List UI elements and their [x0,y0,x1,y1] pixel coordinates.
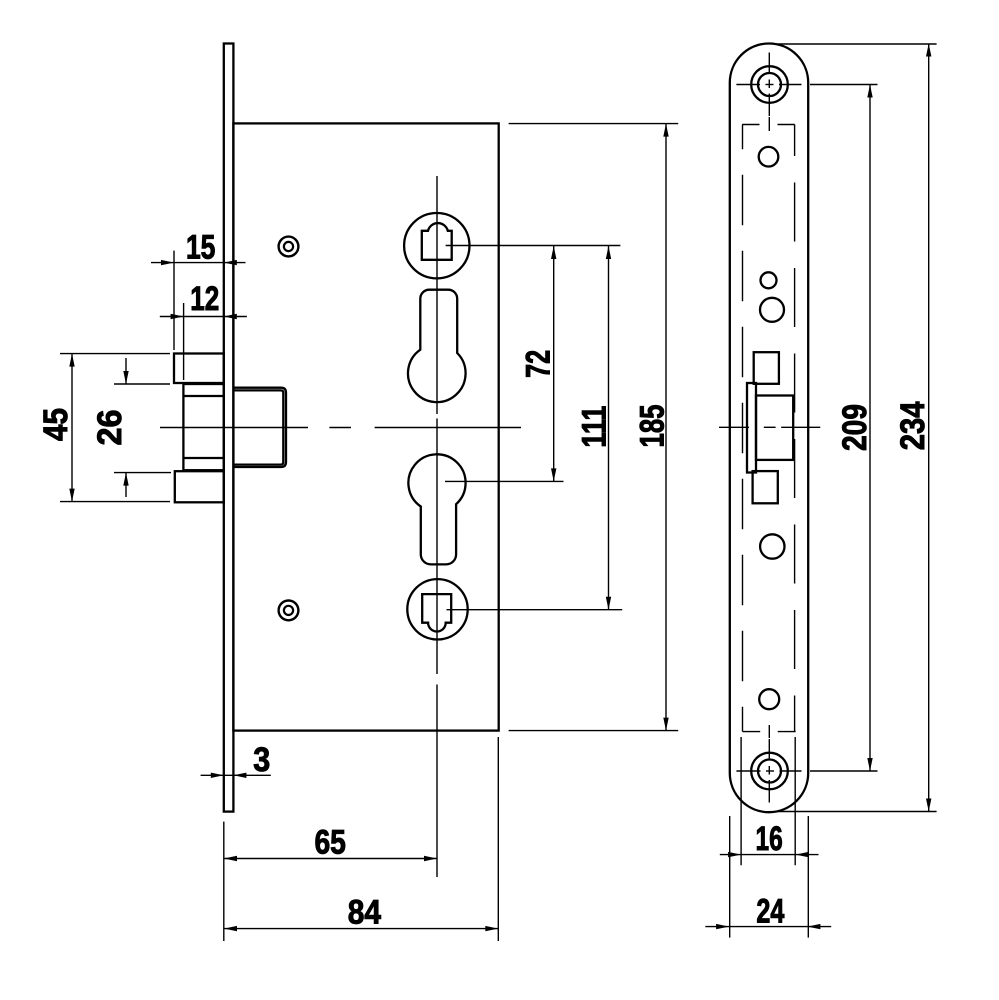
top screw hole inner [758,73,781,96]
dimension 209 line with arrows [869,85,871,772]
upper tab (front view) [754,352,779,384]
handle follower top (circle) [404,213,469,278]
dimension 65 line with arrows [224,858,437,860]
svg-text:45: 45 [37,408,75,441]
faceplate front view (stadium outline) [730,43,808,812]
svg-text:185: 185 [633,405,671,448]
extension line bottom screw center (209 bottom) [810,770,878,772]
svg-text:209: 209 [836,404,874,451]
bottom screw hole outer [751,753,788,790]
small hole pair upper [761,272,777,288]
extension line top screw center (209 top) [810,84,878,86]
latch lower guide block [175,471,224,502]
handle follower top square insert with arch [422,223,452,260]
latch strip behind (front view) [747,383,756,473]
dimension 26 arrow stubs [125,358,127,384]
hole below latch [760,534,784,558]
dimension 45 line with arrows [71,354,73,502]
latch head inner line upper [183,395,223,397]
dimension 72 line with arrows [553,246,555,481]
svg-text:111: 111 [576,406,614,448]
dimension 84 line with arrows [224,928,498,930]
dimension 26 extension lines [114,383,170,385]
centerline tick at cutout bottom [768,725,770,738]
latch bolt (front view) [756,396,793,460]
hole below top screw [759,147,779,167]
dimension 16 line [720,854,819,856]
horizontal centerline left view [160,427,308,429]
dimension 3 line [201,774,271,776]
extension line follower center right (72/111 top) [446,245,621,247]
handle follower bottom (circle) [407,579,467,639]
dimension 16 extension lines [740,737,742,865]
svg-text:24: 24 [756,892,784,930]
hole above bottom screw [759,689,779,709]
svg-text:234: 234 [894,401,932,450]
latch bolt protruding (outer outline) [233,388,286,467]
bottom screw hole inner [758,760,781,783]
latch head inner line lower [183,457,223,459]
dimension 234 line with arrows [928,44,930,812]
extension line body top right (185) [509,123,679,125]
top screw hole outer [751,66,788,103]
svg-text:16: 16 [756,820,783,858]
small hole pair lower [760,298,784,322]
lock body case [233,123,498,730]
extension line top arc (234 top) [776,43,937,45]
centerline tick at cutout top [768,117,770,131]
latch bolt chamfer inner outline [233,390,283,464]
dimension 111 line with arrows [608,246,610,610]
lower tab (front view) [753,471,778,503]
svg-text:15: 15 [186,229,216,267]
handle follower bottom square insert with arch [422,594,451,631]
svg-text:65: 65 [314,823,346,861]
euro cylinder keyhole bottom (bulb up) [408,454,465,564]
screw hole lower (case) [279,601,299,621]
svg-text:72: 72 [520,350,558,378]
vertical centerline through keyholes [436,176,438,414]
dashed cutout rectangle bottom edge [743,731,761,733]
svg-text:26: 26 [91,410,129,446]
extension line body bottom right (185) [509,730,679,732]
faceplate (side view, thin vertical strip) [224,44,234,812]
extension line bottom arc (234 bottom) [777,811,937,813]
dimension 12 line [160,316,247,318]
top screw crosshair [736,84,760,86]
svg-text:84: 84 [348,893,381,931]
screw hole upper (case) [279,237,299,257]
dimension 12 extension line [183,303,185,380]
latch upper guide block [174,354,224,384]
euro cylinder keyhole top (inverted, bulb down) [408,290,466,402]
latch head block [183,384,223,470]
svg-text:12: 12 [190,280,219,318]
dimension 15 line [151,262,246,264]
extension line lower follower center right (111 bottom) [447,609,623,611]
svg-text:3: 3 [253,741,270,779]
dashed cutout rectangle top edge [742,124,759,126]
bottom screw crosshair [736,770,760,772]
dashed cutout rectangle left edge [742,125,744,732]
dimension 15 extension line [173,251,175,350]
dimension 45 extension lines [60,353,170,355]
horizontal centerline right view [719,426,749,428]
dimension 185 line with arrows [665,124,667,731]
extension line cylinder center right (72 bottom) [445,480,564,482]
dashed cutout rectangle right edge [794,125,796,732]
dimension 24 extension lines [729,816,731,938]
dimension 24 line [705,926,831,928]
extension line below faceplate (65/84) [223,822,225,941]
extension line below body right edge (84) [497,737,499,941]
